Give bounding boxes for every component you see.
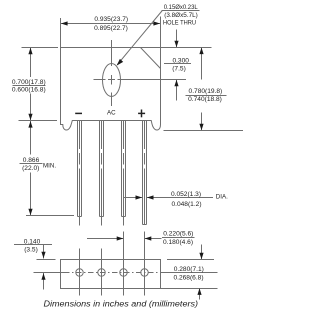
svg-text:0.866: 0.866 [23,157,40,164]
svg-text:(3.5): (3.5) [24,247,38,254]
svg-text:Dimensions in inches and (mill: Dimensions in inches and (millimeters) [44,299,199,309]
svg-text:DIA.: DIA. [216,193,228,200]
svg-text:0.700(17.8): 0.700(17.8) [12,79,46,86]
svg-text:0.300: 0.300 [172,58,189,65]
svg-text:0.180(4.6): 0.180(4.6) [163,239,193,246]
svg-text:0.600(16.8): 0.600(16.8) [12,87,46,94]
svg-text:0.052(1.3): 0.052(1.3) [171,191,201,198]
svg-text:0.935(23.7): 0.935(23.7) [94,16,128,23]
svg-text:MIN.: MIN. [43,162,56,169]
svg-text:0.895(22.7): 0.895(22.7) [94,25,128,32]
svg-text:0.780(19.8): 0.780(19.8) [189,88,223,95]
svg-text:(3.8Øx5.7L): (3.8Øx5.7L) [164,12,198,19]
svg-text:0.048(1.2): 0.048(1.2) [171,201,201,208]
svg-text:0.220(5.6): 0.220(5.6) [163,231,193,238]
svg-text:(7.5): (7.5) [172,66,186,73]
svg-text:HOLE THRU: HOLE THRU [163,19,196,26]
svg-text:0.140: 0.140 [24,238,41,245]
svg-text:(22.0): (22.0) [22,165,39,172]
svg-text:0.15Øx0.23L: 0.15Øx0.23L [164,4,199,11]
svg-text:0.268(6.8): 0.268(6.8) [173,275,203,282]
svg-text:AC: AC [107,110,116,117]
svg-text:0.740(18.8): 0.740(18.8) [188,96,222,103]
svg-text:0.280(7.1): 0.280(7.1) [174,266,204,273]
